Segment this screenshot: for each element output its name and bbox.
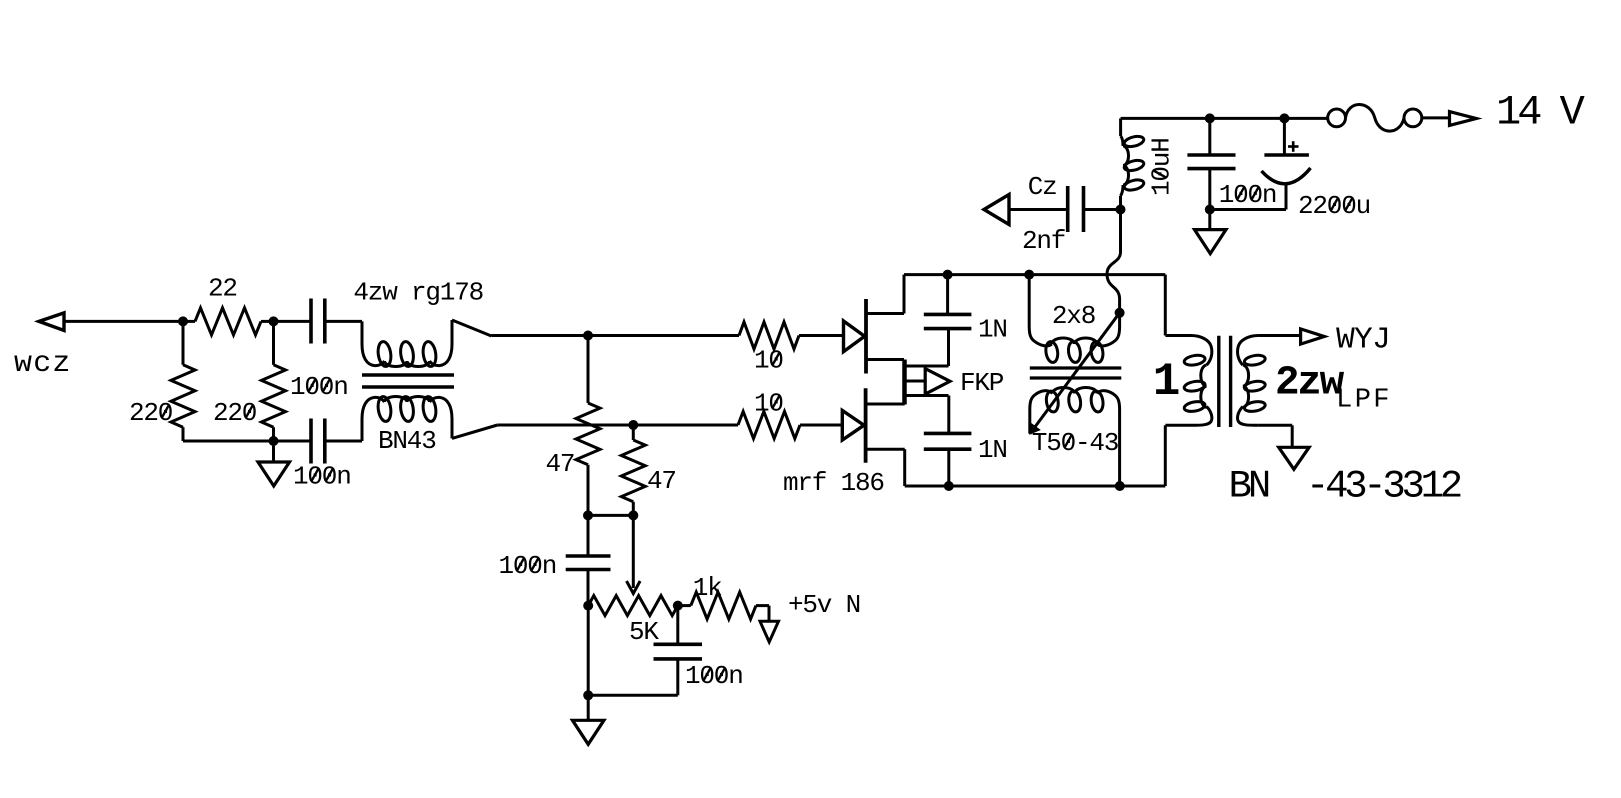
ground below C8 bbox=[1195, 210, 1227, 254]
svg-text:22: 22 bbox=[208, 274, 237, 304]
node C junction dot bbox=[269, 436, 279, 446]
label 220 R3 bbox=[213, 398, 256, 428]
label LPF bbox=[1336, 386, 1392, 416]
node 14V terminal arrow bbox=[1450, 112, 1477, 126]
svg-text:100n: 100n bbox=[1219, 180, 1277, 210]
transformer T2 top winding 2x8 bbox=[1029, 313, 1119, 363]
svg-text:100n: 100n bbox=[499, 551, 557, 581]
label mrf 186 bbox=[783, 468, 884, 498]
label wcz bbox=[14, 347, 72, 381]
capacitor C3 100n bbox=[566, 515, 611, 605]
label 5K RV1 bbox=[629, 617, 659, 647]
wire node H down bbox=[587, 606, 590, 721]
label 10 R8 bbox=[754, 389, 783, 419]
transformer T1 secondary winding bbox=[362, 396, 452, 441]
label 10 R7 bbox=[754, 346, 783, 376]
node R junction dot bbox=[1279, 113, 1289, 123]
transistor Q2 mosfet bbox=[866, 388, 905, 486]
label BN bbox=[1229, 464, 1269, 508]
svg-text:1N: 1N bbox=[978, 435, 1007, 465]
capacitor C7 Cz 2nf bbox=[1009, 186, 1121, 232]
resistor R6 1k bbox=[678, 592, 769, 621]
node Cz terminal arrow bbox=[984, 195, 1009, 225]
capacitor C6 1N bottom bbox=[924, 396, 972, 487]
label 1N C5 bbox=[978, 315, 1007, 345]
node J junction dot bbox=[583, 690, 593, 700]
svg-text:1N: 1N bbox=[978, 315, 1007, 345]
ground small after R6 bbox=[760, 621, 779, 642]
svg-text:-43-3312: -43-3312 bbox=[1306, 464, 1461, 508]
svg-text:4zw rg178: 4zw rg178 bbox=[353, 277, 483, 307]
node B junction dot bbox=[269, 316, 279, 326]
transformer T1 primary winding 4zw rg178 bbox=[362, 320, 452, 367]
wire source-drain bar bbox=[902, 360, 907, 405]
label 2nf bbox=[1022, 226, 1065, 256]
svg-text:100n: 100n bbox=[685, 661, 743, 691]
node F junction dot bbox=[583, 510, 593, 520]
transformer T3 primary winding bbox=[1165, 336, 1211, 426]
resistor R8 10 bottom bbox=[737, 412, 842, 439]
svg-text:wcz: wcz bbox=[14, 347, 72, 381]
node H junction dot bbox=[583, 601, 593, 611]
svg-text:WYJ: WYJ bbox=[1336, 323, 1390, 358]
label 2zw secondary bbox=[1275, 361, 1345, 407]
node S junction dot bbox=[1205, 205, 1215, 215]
wire wiper arrow bbox=[627, 515, 641, 593]
label 1N C6 bbox=[978, 435, 1007, 465]
svg-text:mrf 186: mrf 186 bbox=[783, 468, 884, 498]
wire right edge top bbox=[1164, 275, 1167, 336]
node WCZ input terminal arrow bbox=[39, 313, 64, 331]
label 14 V bbox=[1496, 89, 1585, 137]
wire input to node A bbox=[64, 320, 183, 323]
label 2x8 bbox=[1052, 301, 1095, 331]
label plus polarity bbox=[1288, 141, 1299, 152]
label 4zw rg178 bbox=[353, 277, 483, 307]
node M junction dot bbox=[944, 481, 954, 491]
label WYJ bbox=[1336, 323, 1390, 358]
node E junction dot bbox=[628, 420, 638, 430]
wire C4 to node J bbox=[588, 694, 678, 697]
node Q junction dot bbox=[1205, 113, 1215, 123]
wire adjuster diagonal bbox=[1030, 313, 1120, 434]
inductor L1 10uH bbox=[1121, 118, 1145, 209]
transistor Q1 gate arrow bbox=[844, 321, 865, 352]
label T50-43 bbox=[1032, 428, 1118, 458]
wire top rail bbox=[904, 273, 1165, 276]
transformer T2 core bbox=[1030, 368, 1122, 378]
wire node F to G bbox=[588, 514, 633, 517]
node L junction dot bbox=[1024, 270, 1034, 280]
node G junction dot bbox=[628, 510, 638, 520]
capacitor C4 100n bbox=[654, 606, 703, 696]
transformer T2 bottom winding bbox=[1030, 388, 1120, 487]
label 2200u bbox=[1298, 191, 1370, 221]
node T junction dot bbox=[1115, 308, 1125, 318]
resistor R1 22 bbox=[183, 308, 274, 335]
svg-text:10: 10 bbox=[754, 346, 783, 376]
resistor R4 47 left bbox=[576, 336, 600, 516]
svg-text:1: 1 bbox=[1153, 356, 1179, 408]
resistor R5 47 right bbox=[621, 425, 645, 515]
label 1 primary bbox=[1153, 356, 1179, 408]
svg-text:14 V: 14 V bbox=[1496, 89, 1585, 137]
svg-text:BN43: BN43 bbox=[378, 426, 436, 456]
node WYJ output arrow bbox=[1301, 329, 1325, 344]
ground output bbox=[1279, 447, 1309, 469]
label 100n C8 bbox=[1219, 180, 1277, 210]
node P junction dot bbox=[1116, 205, 1126, 215]
svg-text:LPF: LPF bbox=[1336, 386, 1392, 416]
svg-text:2zw: 2zw bbox=[1275, 361, 1345, 407]
svg-text:100n: 100n bbox=[293, 462, 351, 492]
svg-text:47: 47 bbox=[647, 466, 676, 496]
fuse F1 bbox=[1328, 104, 1450, 131]
transistor Q2 gate arrow bbox=[842, 411, 864, 441]
capacitor C5 1N top bbox=[924, 275, 972, 366]
capacitor C9 2200u electrolytic bbox=[1262, 118, 1311, 209]
resistor R3 220 right bbox=[262, 321, 286, 441]
transistor Q1 mosfet bbox=[866, 275, 904, 374]
node A junction dot bbox=[178, 316, 188, 326]
label 100n C1 bbox=[290, 372, 348, 402]
label +5v N bbox=[788, 590, 860, 620]
wire FKP fork bbox=[905, 366, 949, 396]
label Cz bbox=[1028, 172, 1057, 202]
svg-text:2x8: 2x8 bbox=[1052, 301, 1095, 331]
wire S-curve supply feed bbox=[1107, 210, 1121, 313]
label 100n C3 bbox=[499, 551, 557, 581]
label 10uH bbox=[1147, 138, 1177, 196]
label 47 R4 bbox=[546, 449, 575, 479]
svg-text:+5v N: +5v N bbox=[788, 590, 860, 620]
potentiometer RV1 5K bbox=[588, 596, 678, 616]
label 100n C4 bbox=[685, 661, 743, 691]
capacitor C1 100n top bbox=[274, 299, 363, 344]
node FKP output arrow bbox=[925, 369, 950, 395]
label 47 R5 bbox=[647, 466, 676, 496]
ground below node C bbox=[258, 441, 290, 486]
svg-text:Cz: Cz bbox=[1028, 172, 1057, 202]
label FKP bbox=[960, 368, 1004, 398]
label 22 bbox=[208, 274, 237, 304]
label 1k R6 bbox=[693, 573, 722, 603]
wire T2 left vertical bbox=[1028, 275, 1031, 326]
wire funnel bottom bbox=[452, 425, 737, 438]
svg-text:BN: BN bbox=[1229, 464, 1269, 508]
svg-text:FKP: FKP bbox=[960, 368, 1004, 398]
svg-text:1k: 1k bbox=[693, 573, 722, 603]
capacitor C8 100n supply bbox=[1187, 118, 1235, 209]
node I junction dot bbox=[673, 601, 683, 611]
svg-text:2nf: 2nf bbox=[1022, 226, 1065, 256]
svg-text:47: 47 bbox=[546, 449, 575, 479]
svg-text:T50-43: T50-43 bbox=[1032, 428, 1118, 458]
wire supply rail bbox=[1121, 117, 1328, 120]
transformer T3 secondary winding bbox=[1238, 336, 1299, 426]
transformer T3 core bbox=[1219, 336, 1231, 427]
label BN43 bbox=[378, 426, 436, 456]
node K junction dot bbox=[943, 270, 953, 280]
wire right edge bottom bbox=[1164, 425, 1167, 486]
wire funnel top bbox=[452, 320, 739, 336]
capacitor C2 100n bottom bbox=[274, 419, 363, 464]
node D junction dot bbox=[583, 331, 593, 341]
transformer T1 core bbox=[362, 375, 454, 387]
svg-text:10: 10 bbox=[754, 389, 783, 419]
resistor R2 220 left bbox=[171, 321, 274, 441]
svg-text:10uH: 10uH bbox=[1147, 138, 1177, 196]
ground below node J bbox=[572, 720, 604, 744]
wire T3 to ground bbox=[1291, 425, 1294, 447]
label 220 R2 bbox=[129, 398, 172, 428]
label 100n C2 bbox=[293, 462, 351, 492]
wire C8 to C9 bbox=[1210, 208, 1286, 211]
label -43-3312 bbox=[1306, 464, 1461, 508]
wire bottom rail bbox=[905, 485, 1166, 488]
node N junction dot bbox=[1115, 481, 1125, 491]
resistor R7 10 top bbox=[739, 322, 844, 349]
svg-text:100n: 100n bbox=[290, 372, 348, 402]
